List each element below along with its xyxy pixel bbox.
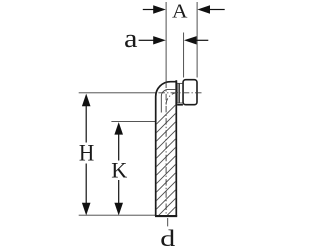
- svg-text:d: d: [160, 226, 176, 250]
- svg-text:A: A: [172, 1, 188, 23]
- svg-text:K: K: [111, 158, 127, 182]
- svg-text:H: H: [79, 140, 94, 165]
- svg-text:a: a: [124, 24, 138, 53]
